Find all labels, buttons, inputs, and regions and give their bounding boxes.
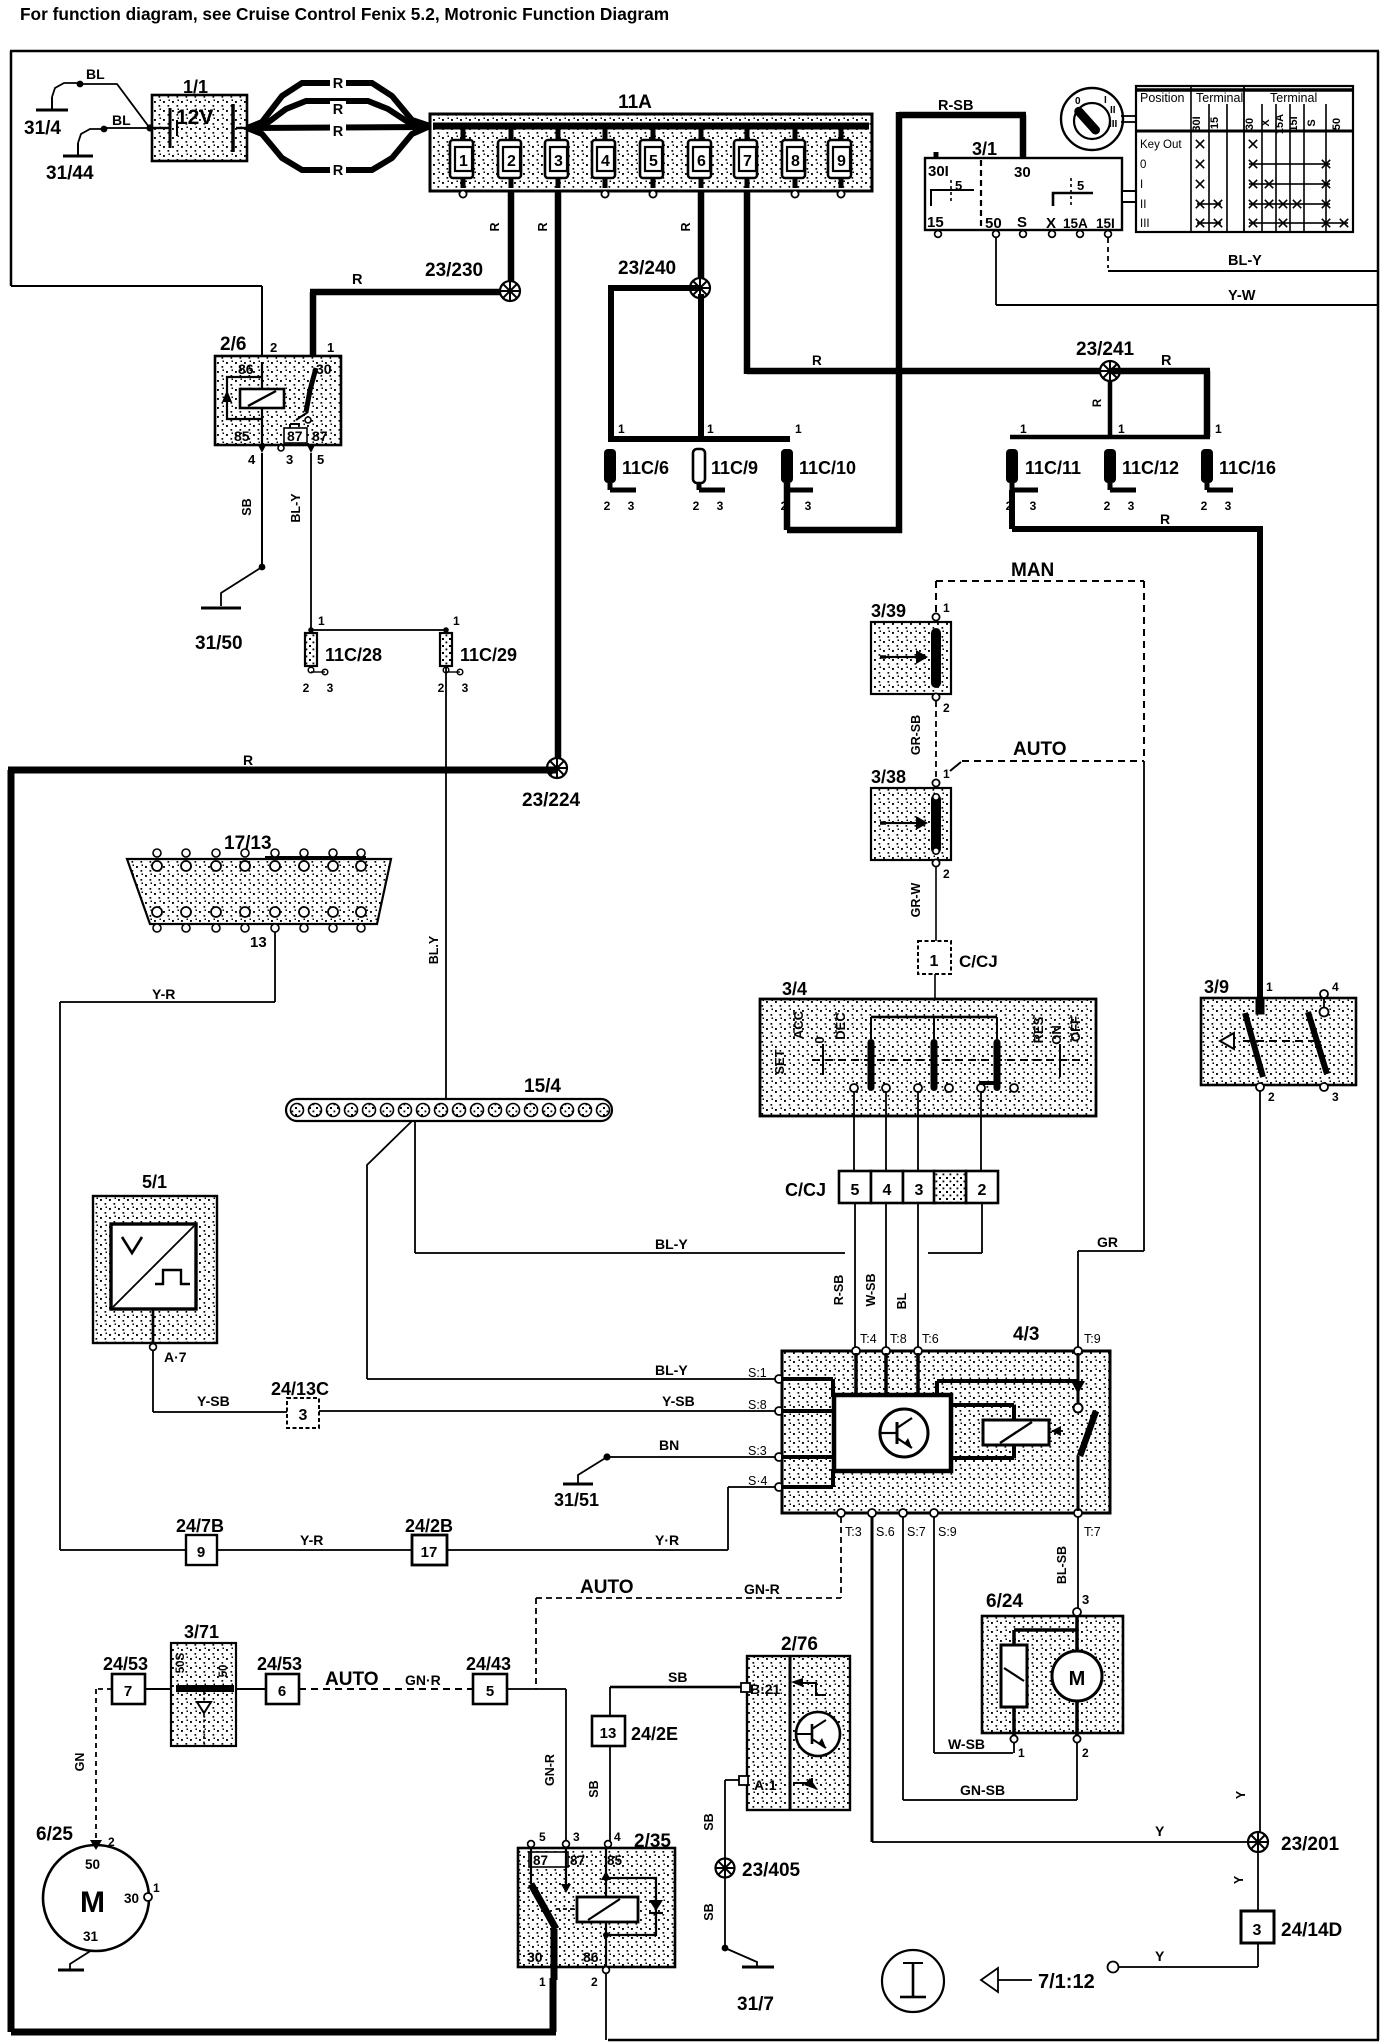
- fuse 3: [545, 129, 568, 188]
- svg-text:R: R: [333, 124, 344, 140]
- svg-text:86: 86: [238, 361, 254, 377]
- svg-text:11C/10: 11C/10: [799, 458, 856, 478]
- fusebox 11A: [430, 92, 872, 191]
- svg-text:S.6: S.6: [876, 1525, 895, 1539]
- svg-text:30I: 30I: [1191, 116, 1203, 131]
- fuse 4: [592, 129, 615, 188]
- svg-text:BL-Y: BL-Y: [655, 1362, 688, 1378]
- svg-text:3: 3: [286, 452, 293, 467]
- svg-text:R: R: [488, 222, 502, 231]
- svg-text:30: 30: [316, 361, 332, 377]
- svg-text:GR-W: GR-W: [909, 882, 923, 917]
- svg-text:24/53: 24/53: [257, 1654, 302, 1674]
- svg-text:24/7B: 24/7B: [176, 1516, 224, 1536]
- speedometer 5/1: [93, 1172, 217, 1365]
- connector 11C/11: [1006, 422, 1081, 513]
- svg-text:1: 1: [943, 767, 950, 781]
- wire Y 4/3 S6 to junction 23/201: [871, 1517, 1259, 1843]
- starter motor 6/25: [36, 1824, 160, 1972]
- 17/13 top pin column 2: [181, 849, 191, 871]
- junction node 23/201: [1248, 1832, 1340, 1855]
- 17/13 bottom pin column 4: [240, 907, 250, 932]
- svg-text:11C/29: 11C/29: [460, 645, 517, 665]
- connector 24/2B: [405, 1516, 453, 1565]
- 4/3 terminal S3: [748, 1444, 783, 1461]
- svg-text:B:21: B:21: [750, 1681, 781, 1697]
- wire Y-SB 5/1 to 24/13C to 4/3 S8: [152, 1350, 776, 1413]
- svg-text:Y: Y: [1155, 1823, 1165, 1839]
- svg-text:BL: BL: [895, 1292, 909, 1309]
- svg-text:87: 87: [312, 428, 328, 444]
- wire BN 31/51 to 4/3 S3: [607, 1437, 776, 1458]
- 4/3 terminal T7: [1074, 1509, 1101, 1539]
- svg-text:2: 2: [591, 1975, 598, 1989]
- wire 3/4 outputs to C/CJ strip: [853, 1092, 982, 1171]
- svg-text:M: M: [80, 1886, 105, 1919]
- svg-text:3: 3: [1128, 499, 1135, 513]
- svg-text:C/CJ: C/CJ: [959, 952, 998, 971]
- svg-text:2: 2: [781, 499, 788, 513]
- svg-text:R: R: [1160, 511, 1170, 527]
- page border right: [1377, 51, 1380, 2040]
- svg-text:5: 5: [317, 452, 324, 467]
- svg-text:4: 4: [1332, 980, 1339, 994]
- svg-text:11C/11: 11C/11: [1025, 458, 1081, 478]
- 4/3 terminal S6: [868, 1509, 895, 1539]
- svg-text:III: III: [1140, 218, 1150, 230]
- svg-text:17: 17: [421, 1544, 438, 1561]
- wire R fuse 7 to junction 23/241: [744, 190, 1110, 374]
- svg-text:23/241: 23/241: [1076, 339, 1135, 360]
- svg-text:3: 3: [1082, 1592, 1089, 1607]
- connector 24/53 pin 6: [257, 1654, 302, 1704]
- wire BL-Y 15/4 to control module 4/3 S1: [367, 1121, 776, 1380]
- svg-text:1: 1: [1020, 422, 1027, 436]
- wire Y 23/201 to 24/14D: [1232, 1852, 1259, 1911]
- 17/13 top pin column 7: [328, 849, 338, 871]
- svg-text:6: 6: [697, 153, 706, 170]
- svg-text:GN-SB: GN-SB: [960, 1782, 1005, 1798]
- svg-text:1: 1: [1266, 980, 1273, 994]
- svg-text:1: 1: [1118, 422, 1125, 436]
- svg-text:3: 3: [554, 153, 563, 170]
- connector 23/405: [716, 1859, 801, 1882]
- wire feed from left border to relay 2/6 terminal 2: [11, 285, 263, 360]
- svg-text:4/3: 4/3: [1013, 1324, 1039, 1345]
- ground 31/51: [554, 1453, 611, 1510]
- connector 24/7B: [176, 1516, 224, 1565]
- svg-text:BL: BL: [112, 112, 131, 128]
- 17/13 top pin column 8: [356, 849, 366, 871]
- wire GN 24/53 to starter 6/25: [73, 1689, 112, 1838]
- svg-text:T:4: T:4: [860, 1332, 877, 1346]
- svg-text:S:7: S:7: [907, 1525, 926, 1539]
- svg-text:2: 2: [1082, 1746, 1089, 1760]
- svg-text:2: 2: [978, 1182, 987, 1199]
- svg-text:24/43: 24/43: [466, 1654, 511, 1674]
- svg-text:6/25: 6/25: [36, 1824, 73, 1845]
- svg-text:3/9: 3/9: [1204, 977, 1229, 997]
- svg-text:5: 5: [851, 1182, 860, 1199]
- svg-text:1: 1: [795, 422, 802, 436]
- svg-text:R-SB: R-SB: [832, 1275, 846, 1306]
- svg-text:1: 1: [943, 601, 950, 615]
- svg-text:87: 87: [570, 1853, 585, 1868]
- wire GR-SB 3/39 to 3/38: [909, 701, 936, 777]
- svg-text:GN·R: GN·R: [405, 1672, 441, 1688]
- svg-text:C/CJ: C/CJ: [785, 1180, 826, 1200]
- svg-text:BL-Y: BL-Y: [289, 493, 303, 523]
- svg-text:85: 85: [607, 1853, 623, 1868]
- wire 23/240 branch to 11C bus: [608, 285, 700, 437]
- svg-text:T:9: T:9: [1084, 1332, 1101, 1346]
- wire 24/53 7 to 3/71 to 24/53 6: [145, 1688, 266, 1690]
- svg-text:S·4: S·4: [748, 1474, 768, 1488]
- wire BL-Y 11C/29 down to 15/4: [427, 666, 447, 1099]
- switch 3/9 brake pedal: [1201, 977, 1356, 1104]
- svg-text:II: II: [1110, 105, 1116, 116]
- svg-text:S:1: S:1: [748, 1366, 767, 1380]
- svg-text:BL-Y: BL-Y: [1228, 253, 1262, 269]
- svg-text:1: 1: [327, 340, 334, 355]
- svg-text:3/1: 3/1: [972, 139, 997, 159]
- wire SB 2/35 pin 2 to border: [605, 1973, 607, 2040]
- svg-text:1: 1: [930, 953, 939, 970]
- junction node 23/230: [425, 260, 520, 301]
- svg-text:11C/28: 11C/28: [325, 645, 382, 665]
- wire R-SB 11C/10 to ignition switch 3/1 terminal 30: [784, 98, 1027, 533]
- svg-text:3/71: 3/71: [184, 1622, 219, 1642]
- svg-text:2: 2: [108, 1835, 115, 1849]
- svg-text:MAN: MAN: [1011, 560, 1054, 581]
- svg-text:R: R: [812, 353, 822, 368]
- svg-text:2: 2: [1201, 499, 1208, 513]
- svg-text:Key Out: Key Out: [1140, 139, 1182, 151]
- wire GN-R AUTO dashed 4/3 T3 to 24/43: [536, 1517, 841, 1689]
- svg-text:11C/16: 11C/16: [1219, 458, 1276, 478]
- svg-text:9: 9: [197, 1544, 205, 1561]
- fuse 7: [734, 129, 757, 188]
- svg-text:15A: 15A: [1063, 216, 1088, 231]
- junction node 23/240: [618, 258, 710, 298]
- svg-text:1: 1: [618, 422, 625, 436]
- svg-text:AUTO: AUTO: [1013, 739, 1066, 760]
- svg-text:24/53: 24/53: [103, 1654, 148, 1674]
- 4/3 terminal T4: [852, 1332, 877, 1355]
- 4/3 internal wiring: [781, 1353, 1085, 1489]
- svg-text:87: 87: [533, 1853, 548, 1868]
- 4/3 terminal S1: [748, 1366, 783, 1383]
- svg-text:6/24: 6/24: [986, 1591, 1023, 1612]
- svg-text:AUTO: AUTO: [325, 1669, 378, 1690]
- svg-text:Y-R: Y-R: [300, 1532, 323, 1548]
- svg-text:For function diagram, see Crui: For function diagram, see Cruise Control…: [20, 4, 669, 24]
- ignition key symbol: [1061, 88, 1136, 150]
- 4/3 terminal S4: [748, 1474, 783, 1491]
- 4/3 terminal T9: [1074, 1332, 1101, 1355]
- svg-text:15: 15: [1209, 117, 1221, 129]
- svg-text:11C/9: 11C/9: [711, 458, 758, 478]
- wire Y 3/9 to junction 23/201: [1234, 1091, 1261, 1842]
- svg-text:1: 1: [1018, 1746, 1025, 1760]
- 4/3 terminal T6: [914, 1332, 939, 1355]
- connector 24/43: [466, 1654, 511, 1704]
- svg-text:III: III: [1109, 119, 1118, 130]
- svg-text:DEC: DEC: [833, 1012, 848, 1040]
- wire SB 23/405 to ground 31/7: [702, 1878, 757, 1966]
- svg-text:BL.Y: BL.Y: [427, 935, 441, 964]
- svg-text:RES: RES: [1031, 1016, 1046, 1043]
- wire R 23/241 down to 11C/12: [1092, 381, 1112, 437]
- wire R-SB C/CJ 5 to 4/3 T4: [832, 1203, 856, 1348]
- svg-text:1: 1: [459, 153, 468, 170]
- wire Y 24/14D to connector 7/1:12: [1108, 1943, 1259, 1973]
- 17/13 top pin column 1: [152, 849, 162, 871]
- svg-text:50: 50: [1331, 118, 1343, 130]
- connector 11C/16: [1201, 422, 1276, 513]
- svg-text:Y: Y: [1232, 1875, 1246, 1884]
- fuse 1 unused terminal: [459, 190, 466, 197]
- svg-text:Terminal: Terminal: [1270, 91, 1317, 105]
- connector 11C/9: [693, 422, 758, 513]
- svg-text:T:8: T:8: [890, 1332, 907, 1346]
- page border top: [10, 50, 1379, 53]
- svg-text:I: I: [1104, 95, 1107, 106]
- svg-text:23/224: 23/224: [522, 790, 581, 811]
- control module 4/3: [782, 1324, 1110, 1513]
- svg-text:12V: 12V: [176, 106, 213, 129]
- fuse 1: [450, 129, 473, 188]
- svg-text:50: 50: [85, 1857, 100, 1872]
- svg-text:5/1: 5/1: [142, 1172, 167, 1192]
- fuse 9 unused terminal: [837, 190, 844, 197]
- 17/13 bottom pin column 7: [328, 907, 338, 932]
- svg-text:15I: 15I: [1288, 116, 1300, 131]
- svg-text:2: 2: [270, 340, 277, 355]
- 4/3 internal switch T9 to T7: [1074, 1353, 1097, 1511]
- svg-text:2: 2: [604, 499, 611, 513]
- wire BL-Y relay 2/6 to 11C/28: [289, 453, 312, 630]
- svg-text:5: 5: [539, 1830, 546, 1844]
- wire SB 2/76 B21 to 24/2E to 2/35 pin 4: [587, 1669, 750, 1842]
- svg-text:I: I: [1140, 179, 1143, 191]
- svg-text:3: 3: [1253, 1922, 1262, 1939]
- bus wire 11C/6 11C/9 11C/10 pin 1: [608, 436, 790, 442]
- svg-text:1: 1: [1215, 422, 1222, 436]
- svg-text:30: 30: [1244, 118, 1256, 130]
- svg-text:X: X: [1260, 119, 1272, 127]
- svg-text:S:8: S:8: [748, 1398, 767, 1412]
- svg-text:15I: 15I: [1096, 216, 1115, 231]
- svg-text:2: 2: [1268, 1090, 1275, 1104]
- svg-text:4: 4: [883, 1182, 892, 1199]
- svg-text:R: R: [333, 102, 344, 118]
- wire GN-R 24/43 to 2/35 pin 3: [508, 1688, 567, 1840]
- svg-text:3: 3: [1332, 1090, 1339, 1104]
- svg-text:23/405: 23/405: [742, 1860, 801, 1881]
- svg-text:50: 50: [218, 1665, 230, 1678]
- ground 31/7: [737, 1966, 774, 2016]
- svg-text:AUTO: AUTO: [580, 1577, 633, 1598]
- svg-text:15: 15: [927, 214, 944, 231]
- svg-text:Y: Y: [1155, 1948, 1165, 1964]
- svg-text:Y-R: Y-R: [152, 986, 175, 1002]
- svg-text:GN-R: GN-R: [744, 1581, 780, 1597]
- timer unit 3/71: [171, 1622, 236, 1746]
- 17/13 bottom pin column 6: [299, 907, 309, 932]
- wire BL-Y 15/4 to connector C/CJ 2: [414, 1121, 982, 1254]
- switch 3/4 cruise stalk: [760, 979, 1096, 1116]
- svg-text:1: 1: [318, 614, 325, 628]
- relay 2/6: [215, 334, 341, 467]
- svg-text:X: X: [1046, 215, 1056, 232]
- svg-text:BN: BN: [659, 1437, 679, 1453]
- svg-text:Y-SB: Y-SB: [197, 1393, 230, 1409]
- wire W-SB 4/3 S9 to 6/24 pin 1: [933, 1517, 1013, 1754]
- wire Y-R 17/13 pin 13 to 24/7B: [59, 932, 276, 1550]
- svg-text:2: 2: [943, 701, 950, 715]
- svg-text:BL: BL: [86, 66, 105, 82]
- svg-text:5: 5: [1077, 178, 1084, 193]
- svg-text:24/2B: 24/2B: [405, 1516, 453, 1536]
- wire SB relay 2/6 to ground 31/50: [221, 453, 265, 606]
- svg-text:1: 1: [153, 1881, 160, 1895]
- connector 11C/28: [303, 633, 382, 695]
- ignition position table: [1136, 86, 1353, 232]
- svg-text:23/201: 23/201: [1281, 1834, 1340, 1855]
- connector C/CJ 1: [918, 941, 998, 1018]
- 17/13 bottom pin column 5: [270, 907, 280, 932]
- svg-text:T:7: T:7: [1084, 1525, 1101, 1539]
- svg-text:SB: SB: [668, 1669, 687, 1685]
- wire R left bus 23/224 to relay 2/35: [8, 752, 558, 2036]
- connector 17/13: [127, 833, 391, 924]
- svg-text:R: R: [352, 272, 363, 288]
- fuse 5 unused terminal: [649, 190, 656, 197]
- svg-text:3: 3: [717, 499, 724, 513]
- svg-text:ACC: ACC: [791, 1010, 806, 1039]
- svg-text:2/76: 2/76: [781, 1634, 818, 1655]
- svg-text:2: 2: [693, 499, 700, 513]
- svg-text:R-SB: R-SB: [938, 98, 973, 114]
- svg-text:31: 31: [83, 1929, 99, 1944]
- connector 24/53 pin 7: [103, 1654, 148, 1704]
- relay 2/35: [518, 1830, 675, 1989]
- junction node 23/241: [1076, 339, 1135, 381]
- svg-text:3: 3: [915, 1182, 924, 1199]
- svg-text:24/14D: 24/14D: [1281, 1920, 1342, 1941]
- wire R fuse 3 to junction 23/224: [536, 190, 561, 768]
- connector 24/13C: [271, 1379, 329, 1428]
- junction node 23/224: [522, 758, 581, 811]
- svg-text:R: R: [679, 222, 693, 231]
- svg-text:SB: SB: [587, 1780, 601, 1797]
- svg-text:31/50: 31/50: [195, 633, 243, 654]
- wire AUTO GN-R 24/53 to 24/43 dashed: [299, 1669, 473, 1690]
- 17/13 top pin column 5: [270, 849, 280, 871]
- wire BL-SB 4/3 T7 to 6/24 pin 3: [1055, 1517, 1089, 1609]
- node MAN dashed selector: [936, 560, 1144, 761]
- svg-text:5: 5: [486, 1683, 494, 1700]
- 17/13 top pin column 6: [299, 849, 309, 871]
- svg-text:SB: SB: [702, 1903, 716, 1920]
- ground 31/50: [195, 607, 243, 655]
- svg-text:R: R: [536, 222, 550, 231]
- svg-text:GR: GR: [1097, 1234, 1118, 1250]
- switch 3/38: [871, 767, 951, 881]
- svg-text:86: 86: [583, 1949, 599, 1965]
- svg-text:W-SB: W-SB: [948, 1736, 985, 1752]
- fuse 8: [782, 129, 805, 188]
- 17/13 top pin column 3: [211, 849, 221, 871]
- 17/13 top pin column 4: [240, 849, 250, 871]
- wire R fuse 2 to junction 23/230: [488, 190, 514, 292]
- page border left upper segment: [10, 51, 13, 286]
- svg-text:3: 3: [462, 681, 469, 695]
- svg-text:M: M: [1069, 1668, 1086, 1690]
- 17/13 bottom pin column 8: [356, 907, 366, 932]
- svg-text:4: 4: [248, 452, 256, 467]
- svg-text:0: 0: [812, 1036, 827, 1043]
- svg-text:1: 1: [453, 614, 460, 628]
- svg-text:15/4: 15/4: [524, 1076, 561, 1097]
- svg-text:3/4: 3/4: [782, 979, 807, 999]
- svg-text:11A: 11A: [618, 92, 652, 113]
- svg-text:2: 2: [507, 153, 516, 170]
- svg-text:4: 4: [601, 153, 610, 170]
- svg-text:S:3: S:3: [748, 1444, 767, 1458]
- svg-text:2: 2: [943, 867, 950, 881]
- 17/13 bottom pin column 2: [181, 907, 191, 932]
- wire BL C/CJ 3 to 4/3 T6: [895, 1203, 919, 1348]
- svg-text:A·7: A·7: [164, 1349, 187, 1365]
- svg-text:85: 85: [234, 428, 250, 444]
- svg-text:Y-W: Y-W: [1228, 288, 1256, 304]
- svg-text:GN-R: GN-R: [543, 1754, 557, 1786]
- svg-text:T:6: T:6: [922, 1332, 939, 1346]
- fuse 6: [688, 129, 711, 188]
- svg-text:Position: Position: [1140, 91, 1185, 105]
- svg-text:50: 50: [985, 215, 1002, 232]
- wire R 23/241 to 11C/16: [1110, 353, 1210, 437]
- svg-text:31/44: 31/44: [46, 163, 94, 184]
- svg-text:2: 2: [1104, 499, 1111, 513]
- electronic module 2/76: [747, 1634, 850, 1810]
- fuse 5: [640, 129, 663, 188]
- svg-text:1: 1: [707, 422, 714, 436]
- fuse 4 unused terminal: [601, 190, 608, 197]
- 4/3 internal driver stage: [834, 1395, 951, 1471]
- connector 11C/10: [781, 422, 856, 513]
- svg-text:31/4: 31/4: [24, 118, 61, 139]
- connector strip C/CJ: [785, 1171, 998, 1203]
- svg-text:R: R: [333, 76, 344, 92]
- fuse 2: [498, 129, 521, 188]
- svg-text:5: 5: [649, 153, 658, 170]
- connector 11C/29: [438, 633, 517, 695]
- wire BL-Y ignition 15I to right border: [1108, 238, 1379, 272]
- svg-text:R: R: [1161, 353, 1172, 369]
- svg-text:2: 2: [438, 681, 445, 695]
- svg-text:GR-SB: GR-SB: [909, 715, 923, 755]
- ignition switch 3/1: [925, 139, 1136, 237]
- svg-text:24/2E: 24/2E: [631, 1724, 678, 1744]
- svg-text:OFF: OFF: [1068, 1016, 1083, 1042]
- wire W-SB C/CJ 4 to 4/3 T8: [864, 1203, 887, 1348]
- battery 1/1 12V: [146, 77, 247, 161]
- svg-text:SET: SET: [772, 1049, 787, 1074]
- fuse 8 unused terminal: [791, 190, 798, 197]
